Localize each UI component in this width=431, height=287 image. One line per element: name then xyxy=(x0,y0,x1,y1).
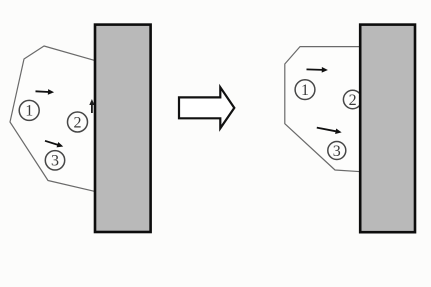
svg-text:3: 3 xyxy=(51,153,59,170)
right wall (gray block) xyxy=(360,25,415,233)
arrow at point 3 (left panel) xyxy=(44,138,64,149)
circled point 1 (right panel) xyxy=(295,80,315,100)
svg-text:2: 2 xyxy=(74,114,82,131)
right irregular block (object flush on wall) xyxy=(285,47,361,172)
circled point 3 (right panel) xyxy=(328,142,346,160)
left wall (gray block) xyxy=(95,25,151,232)
svg-text:3: 3 xyxy=(333,143,341,160)
arrow at point 1 (left panel) xyxy=(35,89,54,96)
circled point 2 (right panel) xyxy=(343,90,361,108)
svg-text:2: 2 xyxy=(349,92,357,109)
arrow at point 3 (right panel) xyxy=(316,125,342,135)
left irregular block (object leaning on wall) xyxy=(10,46,96,192)
circled point 2 (left panel) xyxy=(68,112,88,132)
big transition arrow (middle) xyxy=(179,87,234,128)
svg-text:1: 1 xyxy=(301,82,309,99)
arrow at point 2 (left panel, up along wall) xyxy=(89,99,94,113)
arrow at point 1 (right panel) xyxy=(306,67,328,73)
circled point 1 (left panel) xyxy=(19,100,39,120)
svg-text:1: 1 xyxy=(25,103,33,120)
circled point 3 (left panel) xyxy=(45,151,64,170)
